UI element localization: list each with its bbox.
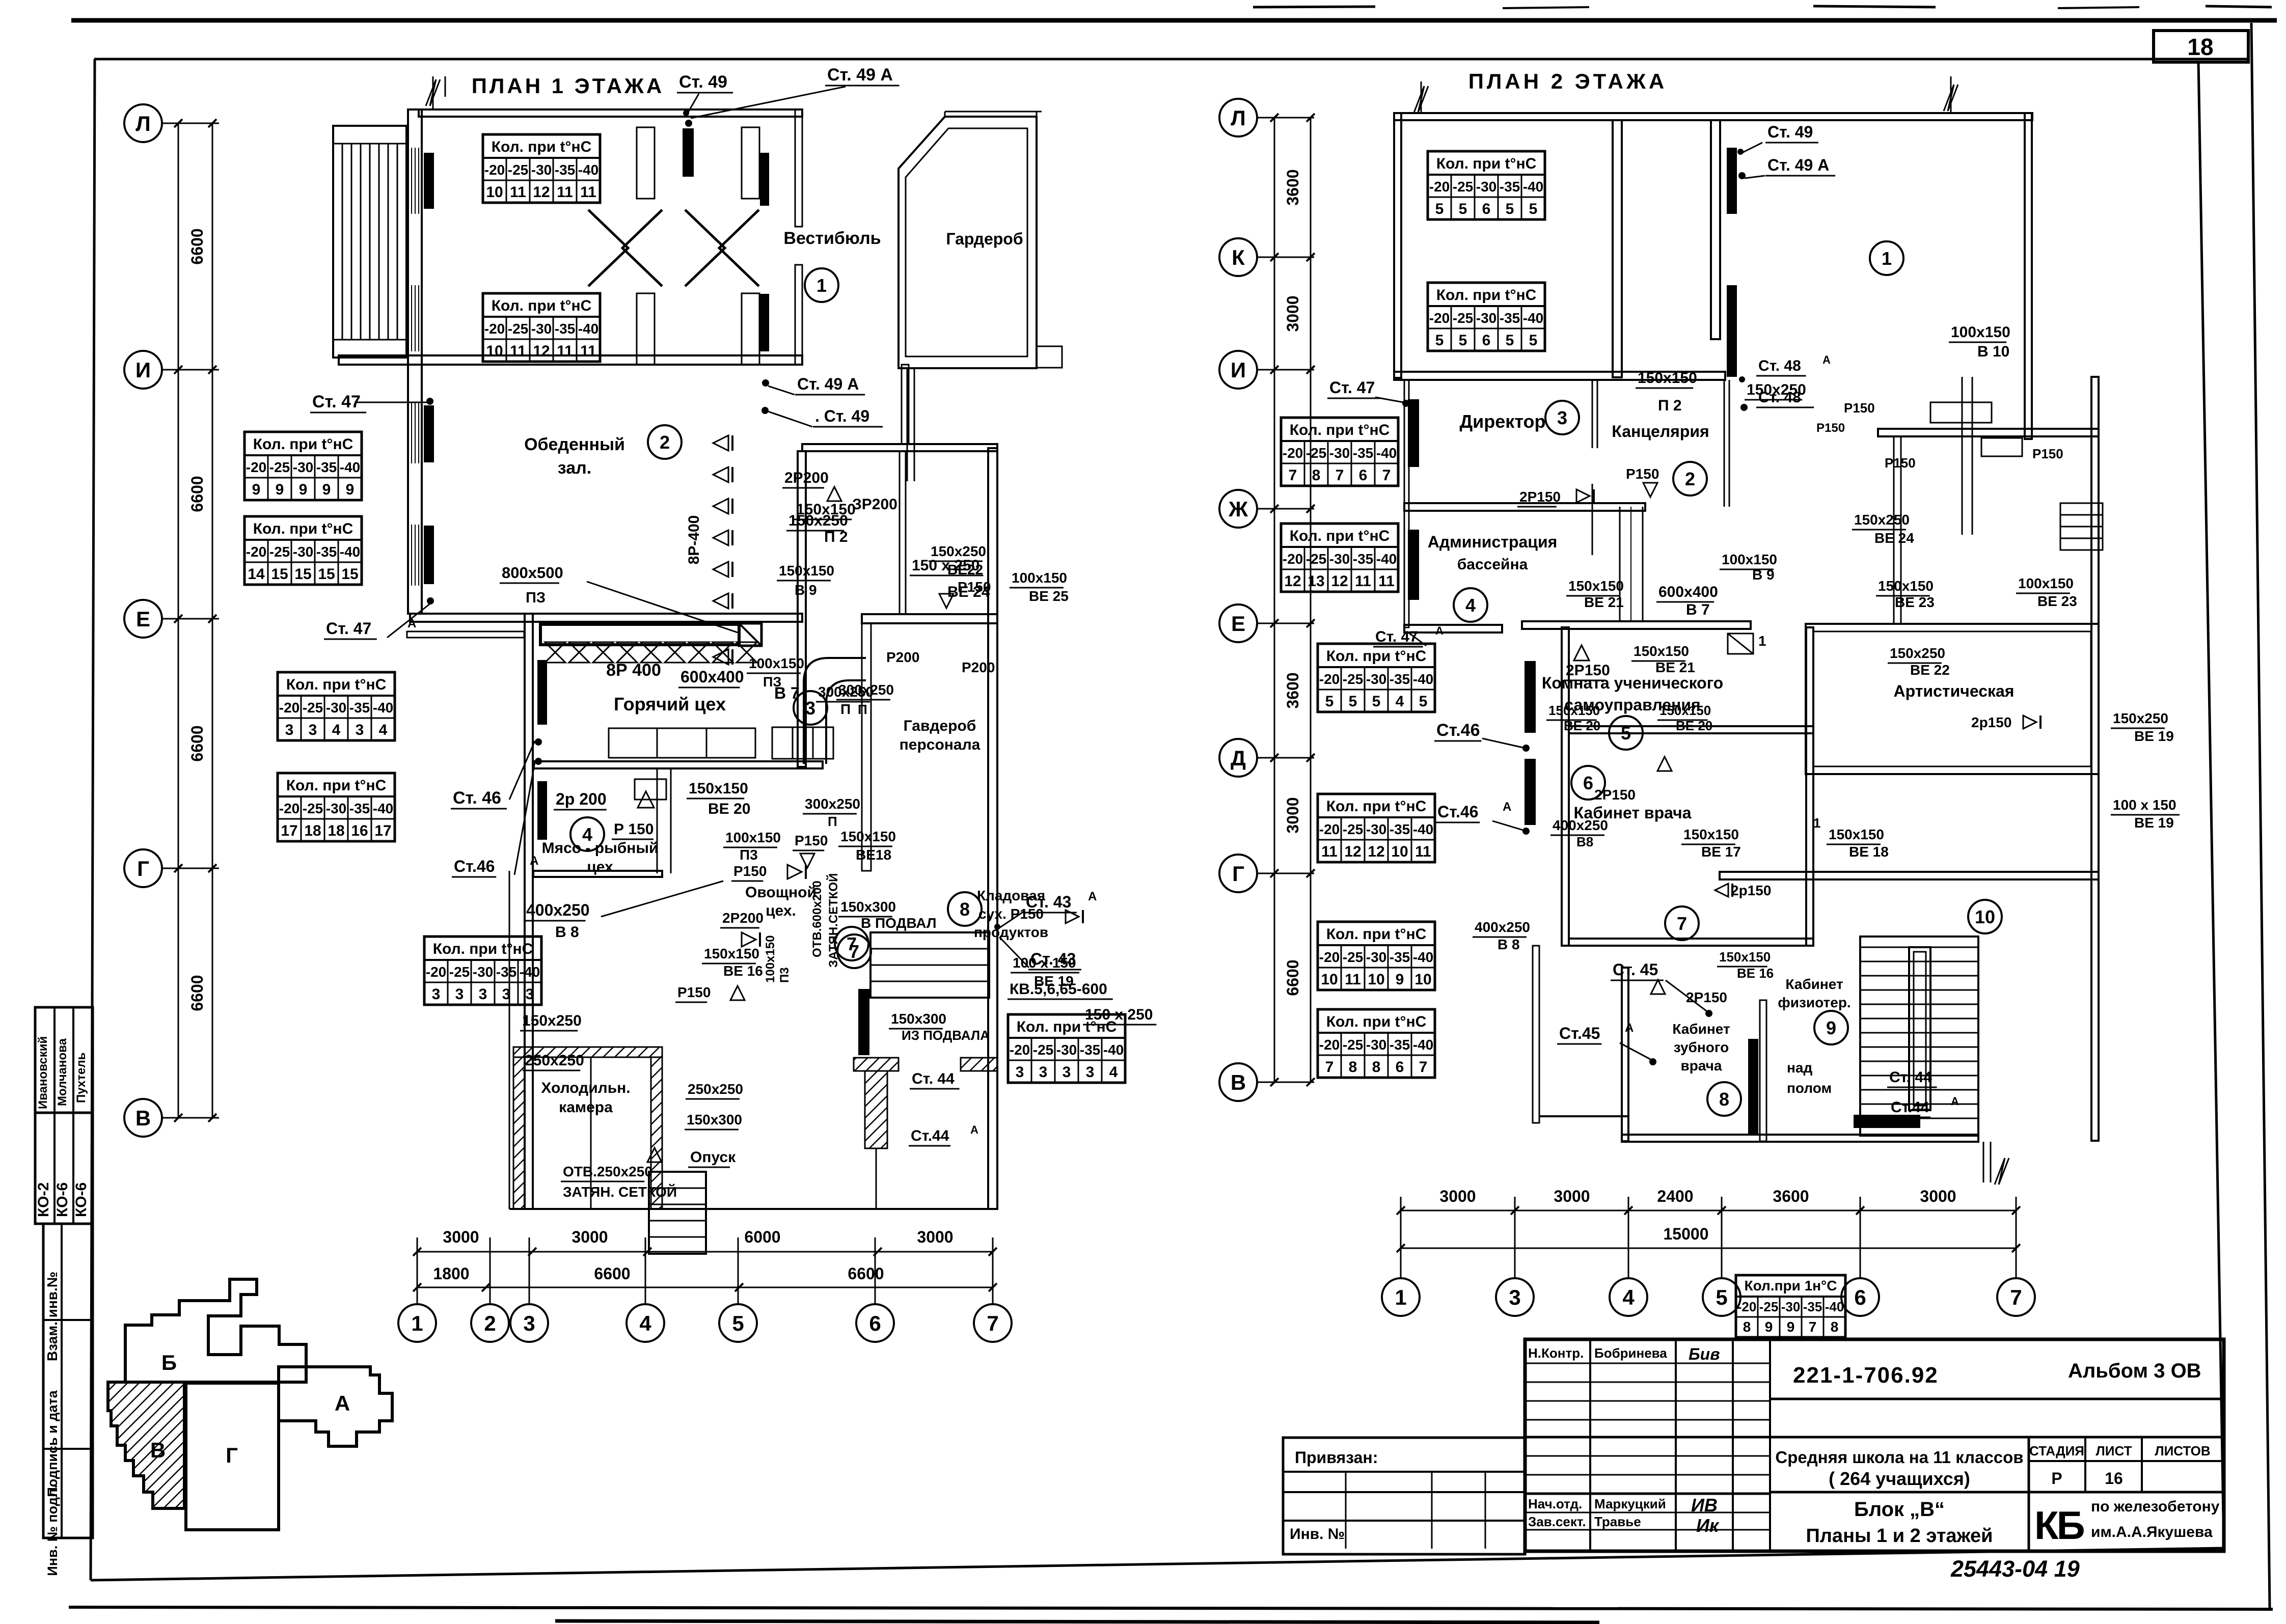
svg-text:Обеденный: Обеденный — [524, 435, 625, 454]
svg-text:13: 13 — [1308, 573, 1324, 590]
svg-text:600x400: 600x400 — [1658, 584, 1718, 600]
svg-text:-25: -25 — [1343, 671, 1363, 687]
svg-text:цех.: цех. — [766, 902, 796, 919]
svg-text:-20: -20 — [1429, 310, 1450, 326]
svg-text:А: А — [1951, 1095, 1959, 1108]
svg-text:3000: 3000 — [1554, 1187, 1590, 1205]
svg-text:ВЕ 25: ВЕ 25 — [1029, 588, 1069, 604]
svg-text:Зав.сект.: Зав.сект. — [1528, 1514, 1586, 1529]
svg-text:Кол.при 1н°С: Кол.при 1н°С — [1745, 1278, 1837, 1293]
svg-text:ВЕ 21: ВЕ 21 — [1655, 659, 1695, 675]
svg-text:Кол. при t°нС: Кол. при t°нС — [1017, 1019, 1117, 1035]
svg-text:2Р200: 2Р200 — [722, 910, 764, 926]
svg-text:Ст. 47: Ст. 47 — [326, 619, 371, 638]
svg-text:физиотер.: физиотер. — [1778, 995, 1850, 1010]
svg-text:Ст. 47: Ст. 47 — [312, 392, 361, 411]
svg-text:9: 9 — [276, 481, 284, 498]
svg-text:3: 3 — [479, 986, 487, 1003]
svg-text:6600: 6600 — [848, 1264, 884, 1283]
svg-text:8: 8 — [1743, 1319, 1751, 1335]
svg-text:Кол. при t°нС: Кол. при t°нС — [1326, 648, 1427, 665]
svg-text:3: 3 — [502, 986, 511, 1003]
svg-text:150 x 250: 150 x 250 — [912, 557, 979, 574]
svg-text:-30: -30 — [293, 459, 313, 475]
svg-text:А: А — [1625, 1021, 1634, 1035]
svg-text:Р150: Р150 — [795, 833, 828, 848]
svg-text:Кол. при t°нС: Кол. при t°нС — [492, 139, 592, 155]
svg-text:Р150: Р150 — [677, 984, 711, 1000]
svg-text:3: 3 — [455, 986, 464, 1003]
svg-text:-40: -40 — [1523, 179, 1543, 195]
svg-text:4: 4 — [639, 1311, 651, 1335]
svg-text:Планы 1 и 2 этажей: Планы 1 и 2 этажей — [1806, 1525, 1993, 1547]
svg-text:-20: -20 — [246, 544, 266, 560]
svg-text:-20: -20 — [279, 801, 300, 816]
svg-text:А: А — [970, 1123, 978, 1136]
svg-text:В 9: В 9 — [1752, 567, 1775, 583]
svg-text:9: 9 — [1826, 1017, 1836, 1038]
svg-text:-30: -30 — [1329, 551, 1350, 567]
svg-text:-40: -40 — [1376, 445, 1397, 461]
svg-text:6000: 6000 — [744, 1228, 780, 1246]
svg-text:В 8: В 8 — [555, 924, 579, 941]
svg-text:-20: -20 — [246, 459, 266, 475]
svg-text:3000: 3000 — [1284, 295, 1302, 332]
svg-text:ВЕ 16: ВЕ 16 — [723, 963, 763, 979]
svg-text:11: 11 — [557, 184, 573, 201]
svg-text:Ст. 43: Ст. 43 — [1030, 950, 1076, 968]
svg-text:4: 4 — [1465, 595, 1476, 616]
svg-text:100x150: 100x150 — [725, 830, 781, 845]
svg-text:400x250: 400x250 — [1553, 817, 1608, 833]
svg-text:Ик: Ик — [1696, 1515, 1720, 1536]
svg-text:-35: -35 — [1080, 1042, 1100, 1058]
svg-text:-30: -30 — [293, 544, 313, 560]
svg-text:5: 5 — [1506, 332, 1514, 349]
svg-text:-25: -25 — [1343, 1037, 1363, 1053]
svg-text:150x250: 150x250 — [1890, 645, 1945, 661]
svg-text:12: 12 — [533, 184, 550, 201]
svg-text:8: 8 — [1372, 1059, 1381, 1076]
svg-text:Пухтель: Пухтель — [74, 1053, 88, 1103]
svg-text:11: 11 — [580, 343, 596, 360]
svg-text:Мясо - рыбный: Мясо - рыбный — [542, 840, 659, 857]
svg-text:Р150: Р150 — [1816, 421, 1845, 435]
svg-text:Б: Б — [161, 1351, 177, 1374]
svg-text:Кол. при t°нС: Кол. при t°нС — [1290, 528, 1390, 544]
svg-text:Опуск: Опуск — [690, 1149, 736, 1166]
svg-text:-40: -40 — [578, 162, 598, 178]
svg-text:-30: -30 — [531, 321, 552, 337]
svg-text:7: 7 — [1677, 913, 1687, 934]
svg-text:150x150: 150x150 — [1634, 643, 1689, 659]
svg-text:Кол. при t°нС: Кол. при t°нС — [1326, 926, 1427, 943]
svg-text:СТАДИЯ: СТАДИЯ — [2029, 1443, 2084, 1458]
svg-text:-35: -35 — [1390, 821, 1410, 837]
svg-text:7: 7 — [1809, 1319, 1817, 1335]
svg-text:25443-04 19: 25443-04 19 — [1950, 1556, 2080, 1582]
svg-text:3000: 3000 — [1439, 1187, 1476, 1205]
svg-text:-25: -25 — [1759, 1299, 1779, 1314]
svg-text:18: 18 — [304, 822, 321, 839]
svg-text:И: И — [135, 358, 151, 382]
svg-text:-25: -25 — [1306, 445, 1326, 461]
svg-text:5: 5 — [1372, 693, 1381, 710]
svg-text:-40: -40 — [1376, 551, 1397, 567]
svg-text:-30: -30 — [1329, 445, 1350, 461]
svg-text:3000: 3000 — [917, 1228, 953, 1246]
svg-text:1: 1 — [1758, 633, 1766, 649]
svg-text:Ст.46: Ст.46 — [1437, 803, 1478, 821]
svg-text:Гардероб: Гардероб — [946, 230, 1023, 248]
svg-text:В 9: В 9 — [795, 582, 817, 598]
svg-text:-30: -30 — [326, 801, 346, 816]
svg-text:Кол. при t°нС: Кол. при t°нС — [286, 777, 387, 794]
svg-text:Р150: Р150 — [1844, 400, 1875, 416]
svg-text:7: 7 — [2010, 1285, 2022, 1309]
svg-text:-30: -30 — [1476, 179, 1496, 195]
svg-text:15: 15 — [341, 566, 358, 583]
svg-text:17: 17 — [281, 822, 297, 839]
svg-text:цех: цех — [587, 859, 613, 875]
svg-text:2: 2 — [484, 1311, 496, 1335]
svg-text:П3: П3 — [778, 967, 792, 983]
svg-text:15: 15 — [294, 566, 311, 583]
svg-text:Кол. при t°нС: Кол. при t°нС — [1326, 798, 1427, 815]
svg-text:7: 7 — [987, 1311, 998, 1335]
svg-text:3: 3 — [356, 722, 364, 738]
svg-text:150x150: 150x150 — [1878, 578, 1934, 594]
svg-text:ЗР200: ЗР200 — [852, 496, 897, 513]
svg-text:-20: -20 — [1319, 1037, 1340, 1053]
svg-text:6: 6 — [1854, 1285, 1866, 1309]
svg-text:КО-6: КО-6 — [54, 1182, 71, 1217]
svg-text:-20: -20 — [1319, 821, 1340, 837]
svg-text:-30: -30 — [1366, 1037, 1386, 1053]
svg-text:В: В — [150, 1438, 166, 1462]
svg-text:11: 11 — [1321, 843, 1338, 860]
svg-text:Р150: Р150 — [2032, 446, 2063, 461]
svg-text:800x500: 800x500 — [502, 564, 563, 582]
svg-text:400x250: 400x250 — [526, 901, 590, 919]
svg-text:-25: -25 — [303, 801, 323, 816]
svg-text:Кол. при t°нС: Кол. при t°нС — [286, 676, 387, 693]
svg-text:150x150: 150x150 — [704, 946, 759, 961]
svg-text:300x250: 300x250 — [805, 796, 860, 812]
svg-text:15: 15 — [271, 566, 288, 583]
svg-text:ВЕ 16: ВЕ 16 — [1737, 966, 1774, 981]
svg-text:-25: -25 — [1343, 949, 1363, 965]
svg-text:3: 3 — [285, 722, 294, 738]
svg-text:-30: -30 — [326, 700, 346, 715]
svg-text:14: 14 — [248, 566, 265, 583]
svg-text:Ст.45: Ст.45 — [1559, 1024, 1600, 1042]
svg-text:Травье: Травье — [1594, 1514, 1641, 1529]
svg-text:Р150: Р150 — [733, 863, 767, 879]
svg-text:В: В — [1231, 1070, 1246, 1094]
svg-text:9: 9 — [346, 481, 355, 498]
svg-text:11: 11 — [1355, 573, 1371, 590]
svg-text:бассейна: бассейна — [1457, 556, 1528, 573]
svg-text:Ивановский: Ивановский — [36, 1036, 50, 1109]
svg-text:-35: -35 — [1353, 551, 1373, 567]
svg-text:Ст. 49 А: Ст. 49 А — [797, 375, 859, 393]
svg-text:В: В — [135, 1106, 151, 1130]
svg-text:6: 6 — [1583, 773, 1593, 793]
svg-text:12: 12 — [1368, 843, 1384, 860]
svg-text:12: 12 — [1344, 843, 1361, 860]
svg-text:Ст. 49: Ст. 49 — [679, 72, 727, 92]
svg-text:-40: -40 — [1413, 1037, 1433, 1053]
svg-text:Горячий цех: Горячий цех — [614, 694, 726, 714]
svg-text:П3: П3 — [740, 847, 758, 863]
svg-text:Взам. инв.№: Взам. инв.№ — [44, 1272, 60, 1361]
svg-text:100 x 150: 100 x 150 — [2113, 797, 2176, 813]
svg-text:-25: -25 — [508, 321, 528, 337]
svg-text:-35: -35 — [1390, 949, 1410, 965]
svg-text:-20: -20 — [426, 964, 446, 980]
svg-text:А: А — [335, 1391, 350, 1415]
svg-text:врача: врача — [1680, 1058, 1722, 1074]
svg-text:1: 1 — [1882, 248, 1892, 269]
svg-text:100x150: 100x150 — [764, 935, 777, 983]
svg-text:2Р150: 2Р150 — [1686, 989, 1727, 1005]
svg-text:8: 8 — [1312, 467, 1321, 484]
svg-text:зубного: зубного — [1674, 1039, 1729, 1055]
svg-text:ПЛАН 2 ЭТАЖА: ПЛАН 2 ЭТАЖА — [1468, 69, 1668, 93]
svg-text:8: 8 — [960, 899, 970, 920]
svg-text:Ст.46: Ст.46 — [454, 857, 495, 875]
svg-text:5: 5 — [1529, 332, 1538, 349]
svg-text:-30: -30 — [1366, 821, 1386, 837]
svg-text:Кол. при t°нС: Кол. при t°нС — [1436, 287, 1537, 304]
svg-text:-40: -40 — [1523, 310, 1543, 326]
svg-text:300x250: 300x250 — [838, 682, 894, 698]
svg-text:Кол. при t°нС: Кол. при t°нС — [1326, 1013, 1427, 1030]
svg-text:17: 17 — [374, 822, 391, 839]
svg-text:16: 16 — [2105, 1469, 2123, 1488]
svg-text:-35: -35 — [316, 459, 337, 475]
svg-text:-40: -40 — [373, 801, 393, 816]
svg-text:Кол. при t°нС: Кол. при t°нС — [1436, 155, 1537, 172]
svg-text:-40: -40 — [1103, 1042, 1124, 1058]
svg-text:150x250: 150x250 — [522, 1012, 582, 1029]
svg-text:6600: 6600 — [188, 228, 206, 264]
svg-text:6600: 6600 — [188, 476, 206, 512]
svg-text:Ж: Ж — [1228, 497, 1248, 521]
svg-text:КБ: КБ — [2034, 1503, 2084, 1548]
svg-text:А: А — [1088, 890, 1097, 903]
svg-text:Кабинет: Кабинет — [1785, 976, 1843, 992]
svg-text:Ст. 49 А: Ст. 49 А — [827, 65, 893, 85]
svg-text:Р150: Р150 — [1626, 466, 1659, 482]
svg-text:100x150: 100x150 — [1722, 552, 1777, 567]
svg-text:-20: -20 — [484, 321, 505, 337]
svg-text:ВЕ 20: ВЕ 20 — [1564, 718, 1600, 733]
svg-text:10: 10 — [1391, 843, 1408, 860]
svg-text:2: 2 — [1685, 469, 1695, 489]
svg-text:12: 12 — [1331, 573, 1348, 590]
svg-text:3: 3 — [432, 986, 441, 1003]
svg-text:полом: полом — [1787, 1080, 1832, 1096]
svg-text:П 2: П 2 — [824, 529, 848, 545]
svg-text:12: 12 — [1284, 573, 1301, 590]
svg-text:100x150: 100x150 — [749, 655, 804, 671]
svg-text:Г: Г — [1232, 862, 1244, 886]
svg-text:9: 9 — [1787, 1319, 1795, 1335]
svg-text:10: 10 — [1975, 906, 1995, 927]
svg-text:Н.Контр.: Н.Контр. — [1528, 1345, 1584, 1361]
svg-text:ПЛАН 1 ЭТАЖА: ПЛАН 1 ЭТАЖА — [472, 74, 665, 98]
svg-text:150x150: 150x150 — [689, 780, 748, 797]
svg-text:2Р150: 2Р150 — [1594, 787, 1636, 803]
svg-text:-35: -35 — [1390, 1037, 1410, 1053]
svg-text:-25: -25 — [1453, 310, 1473, 326]
svg-text:ВЕ 19: ВЕ 19 — [2134, 728, 2174, 744]
svg-text:11: 11 — [1378, 573, 1395, 590]
svg-text:Холодильн.: Холодильн. — [541, 1080, 630, 1096]
svg-text:-35: -35 — [1500, 179, 1520, 195]
svg-text:им.А.А.Якушева: им.А.А.Якушева — [2091, 1524, 2213, 1540]
svg-text:150x150: 150x150 — [840, 829, 896, 844]
svg-text:ВЕ 19: ВЕ 19 — [2134, 815, 2174, 831]
svg-text:5: 5 — [1459, 332, 1467, 349]
svg-text:3: 3 — [1557, 407, 1567, 428]
svg-text:-30: -30 — [1781, 1299, 1801, 1314]
svg-text:персонала: персонала — [900, 736, 981, 753]
svg-text:18: 18 — [2187, 34, 2213, 60]
svg-text:ВЕ 22: ВЕ 22 — [1910, 662, 1950, 678]
svg-text:-35: -35 — [555, 162, 575, 178]
svg-text:А: А — [1822, 353, 1831, 366]
svg-text:Ст. 49: Ст. 49 — [1767, 123, 1813, 141]
svg-text:Р150: Р150 — [1885, 455, 1916, 471]
svg-text:-35: -35 — [555, 321, 575, 337]
svg-text:5: 5 — [1506, 201, 1514, 217]
svg-text:ОТВ.250х250: ОТВ.250х250 — [563, 1164, 652, 1179]
svg-text:Ст. 48: Ст. 48 — [1758, 357, 1801, 374]
svg-text:150x300: 150x300 — [687, 1112, 742, 1127]
svg-text:150x150: 150x150 — [1719, 949, 1771, 965]
svg-text:Ст.44: Ст.44 — [911, 1127, 949, 1144]
svg-text:18: 18 — [328, 822, 344, 839]
svg-text:3: 3 — [1039, 1064, 1048, 1081]
svg-text:4: 4 — [379, 722, 388, 738]
svg-text:4: 4 — [1396, 693, 1404, 710]
svg-text:9: 9 — [1396, 971, 1404, 988]
svg-text:Бuв: Бuв — [1689, 1345, 1720, 1363]
svg-text:над: над — [1787, 1060, 1812, 1076]
svg-text:5: 5 — [1325, 693, 1334, 710]
svg-text:-20: -20 — [1429, 179, 1450, 195]
svg-text:А: А — [1503, 800, 1511, 814]
svg-text:Ст. 47: Ст. 47 — [1329, 378, 1375, 397]
svg-text:-40: -40 — [340, 459, 360, 475]
svg-text:Г: Г — [137, 857, 149, 880]
svg-text:П: П — [828, 814, 837, 829]
svg-text:-40: -40 — [373, 700, 393, 715]
svg-text:зал.: зал. — [558, 458, 591, 478]
svg-text:( 264 учащихся): ( 264 учащихся) — [1829, 1468, 1970, 1489]
svg-text:1: 1 — [411, 1311, 423, 1335]
svg-text:Ст. 46: Ст. 46 — [453, 788, 501, 808]
svg-text:3: 3 — [1063, 1064, 1071, 1081]
svg-text:2400: 2400 — [1657, 1187, 1693, 1205]
svg-text:Инв. №: Инв. № — [1290, 1526, 1345, 1543]
svg-text:-40: -40 — [1413, 821, 1433, 837]
svg-text:Д: Д — [1231, 746, 1246, 770]
svg-text:Канцелярия: Канцелярия — [1612, 422, 1709, 441]
svg-text:9: 9 — [252, 481, 261, 498]
svg-text:1: 1 — [1395, 1285, 1406, 1309]
svg-text:КО-2: КО-2 — [35, 1182, 52, 1217]
svg-text:6: 6 — [1396, 1059, 1404, 1076]
svg-text:П: П — [858, 702, 867, 717]
svg-text:3000: 3000 — [443, 1228, 479, 1246]
svg-text:150x150: 150x150 — [1683, 827, 1739, 842]
svg-text:Кабинет: Кабинет — [1672, 1021, 1730, 1037]
svg-text:Артистическая: Артистическая — [1894, 682, 2015, 700]
svg-text:3000: 3000 — [1284, 797, 1302, 833]
svg-text:-30: -30 — [531, 162, 552, 178]
svg-text:Кол. при t°нС: Кол. при t°нС — [492, 297, 592, 314]
svg-text:150x150: 150x150 — [1829, 827, 1884, 842]
svg-text:И: И — [1231, 358, 1246, 382]
svg-text:Кол. при t°нС: Кол. при t°нС — [433, 941, 533, 957]
svg-text:Блок „В“: Блок „В“ — [1854, 1498, 1945, 1521]
svg-text:А: А — [1435, 624, 1444, 637]
svg-text:Ст. 44: Ст. 44 — [912, 1070, 955, 1087]
svg-text:по железобетону: по железобетону — [2091, 1498, 2220, 1515]
svg-text:2: 2 — [660, 432, 670, 453]
svg-text:9: 9 — [322, 481, 331, 498]
svg-text:В ПОДВАЛ: В ПОДВАЛ — [861, 915, 937, 931]
svg-text:2Р150: 2Р150 — [1566, 662, 1610, 679]
svg-text:Гавдероб: Гавдероб — [904, 718, 976, 734]
svg-text:7: 7 — [1289, 467, 1297, 484]
svg-text:Р 150: Р 150 — [614, 821, 654, 838]
svg-text:Р200: Р200 — [962, 659, 995, 675]
svg-text:12: 12 — [533, 343, 550, 360]
svg-text:Ст.46: Ст.46 — [1436, 721, 1480, 740]
svg-text:8: 8 — [1831, 1319, 1839, 1335]
svg-text:ВЕ 23: ВЕ 23 — [2037, 593, 2077, 609]
svg-text:150x300: 150x300 — [891, 1011, 946, 1027]
svg-text:Вестибюль: Вестибюль — [783, 229, 881, 248]
svg-text:ВЕ 23: ВЕ 23 — [1895, 594, 1935, 610]
svg-text:3: 3 — [1509, 1285, 1520, 1309]
svg-text:11: 11 — [580, 184, 596, 201]
svg-text:В 7: В 7 — [1686, 601, 1710, 618]
svg-text:-30: -30 — [1366, 949, 1386, 965]
svg-text:6600: 6600 — [188, 725, 206, 761]
svg-text:Молчанова: Молчанова — [56, 1038, 69, 1106]
svg-text:11: 11 — [557, 343, 573, 360]
svg-text:15: 15 — [318, 566, 335, 583]
svg-text:-40: -40 — [1413, 671, 1433, 687]
svg-text:4: 4 — [1622, 1285, 1635, 1309]
svg-text:К: К — [1232, 245, 1245, 269]
svg-text:Ст. 43: Ст. 43 — [1026, 893, 1071, 911]
svg-text:5: 5 — [1529, 201, 1538, 217]
svg-text:10: 10 — [1321, 971, 1338, 988]
svg-text:ИВ: ИВ — [1691, 1495, 1718, 1516]
svg-text:5: 5 — [1349, 693, 1357, 710]
svg-text:ОТВ.600x200: ОТВ.600x200 — [810, 880, 824, 957]
svg-text:6: 6 — [1482, 201, 1491, 217]
svg-text:Л: Л — [135, 112, 150, 135]
svg-text:5: 5 — [1419, 693, 1428, 710]
